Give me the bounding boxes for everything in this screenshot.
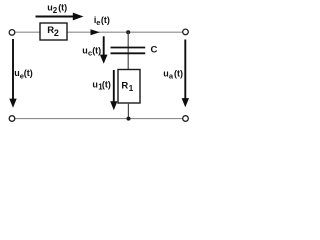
node junction bottom	[127, 117, 131, 121]
node junction top	[126, 30, 130, 34]
svg-text:1: 1	[129, 84, 134, 93]
wire cap stem	[127, 32, 129, 69]
wire R1 to bottom rail	[127, 103, 129, 119]
svg-text:(t): (t)	[24, 68, 33, 78]
svg-text:(t): (t)	[92, 45, 101, 55]
voltage arrow uc	[103, 36, 105, 55]
svg-text:(t): (t)	[101, 15, 110, 25]
wire top rail left segment	[15, 31, 40, 33]
resistor R1	[118, 70, 140, 104]
terminal bottom-right	[183, 116, 189, 122]
terminal bottom-left	[9, 116, 15, 122]
resistor R2	[40, 23, 67, 40]
wire bottom rail	[15, 118, 183, 120]
svg-text:2: 2	[53, 6, 58, 15]
wire top rail right segment	[67, 31, 183, 33]
svg-text:u: u	[82, 45, 88, 55]
svg-text:(t): (t)	[102, 80, 111, 90]
current arrow ie	[91, 29, 100, 35]
svg-text:2: 2	[54, 28, 59, 38]
capacitor C	[111, 47, 146, 49]
voltage arrow u1	[113, 70, 115, 102]
svg-text:u: u	[92, 80, 98, 90]
voltage arrow ua	[184, 40, 186, 100]
svg-text:C: C	[151, 45, 158, 56]
voltage arrow ue	[12, 39, 14, 100]
svg-text:(t): (t)	[58, 3, 67, 13]
terminal top-right	[183, 29, 189, 35]
svg-text:R: R	[121, 81, 128, 92]
svg-text:e: e	[96, 18, 100, 27]
terminal top-left	[9, 30, 15, 36]
voltage arrow u2	[36, 16, 75, 18]
svg-text:(t): (t)	[174, 68, 183, 78]
